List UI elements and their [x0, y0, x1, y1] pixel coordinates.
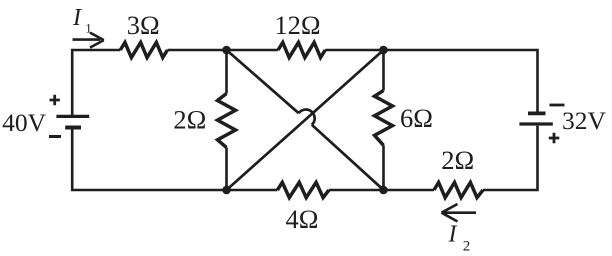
wire: top middle (3-ohm to 12-ohm)	[167, 49, 278, 52]
node junction top-left	[222, 46, 231, 55]
svg-text:I: I	[72, 5, 82, 31]
node junction bottom-left	[222, 186, 231, 195]
wire: right branch bottom (battery to 2-ohm)	[483, 126, 538, 190]
svg-text:2Ω: 2Ω	[173, 104, 206, 134]
wire: 6-ohm branch bottom stub	[382, 145, 385, 190]
svg-text:4Ω: 4Ω	[286, 204, 319, 234]
node junction bottom-right	[379, 186, 388, 195]
svg-text:1: 1	[85, 21, 92, 36]
battery V1 40V long plate	[56, 115, 89, 118]
battery V1 40V short plate	[65, 126, 81, 130]
wire: diagonal from top-left node with crossover hop to bottom-right node	[227, 50, 384, 190]
svg-text:3Ω: 3Ω	[127, 10, 160, 40]
svg-text:I: I	[448, 222, 458, 248]
wire: 6-ohm branch top stub	[382, 50, 385, 91]
wire: top right (12-ohm to right battery)	[325, 50, 537, 112]
svg-text:40V: 40V	[2, 108, 47, 137]
svg-text:32V: 32V	[562, 106, 607, 135]
wire: bottom left (4-ohm to left battery)	[72, 129, 277, 190]
wire: bottom middle (2-ohm to 4-ohm)	[329, 189, 434, 192]
resistor R3 2-ohm vertical	[218, 94, 236, 148]
battery V1 plus sign	[50, 95, 60, 105]
wire: diagonal from bottom-left node to top-right node	[227, 50, 384, 190]
resistor R6 2-ohm bottom right	[434, 182, 483, 197]
battery V2 32V short plate	[528, 112, 546, 116]
svg-text:6Ω: 6Ω	[400, 103, 433, 133]
resistor R1 3-ohm	[120, 42, 167, 57]
wire: left branch top (battery + to 3-ohm)	[72, 50, 120, 115]
battery V2 plus sign	[549, 133, 560, 144]
battery V2 minus sign	[550, 104, 565, 107]
wire: crossover hop arc	[299, 109, 315, 124]
battery V1 minus sign	[49, 135, 61, 138]
node junction top-right	[379, 46, 388, 55]
svg-text:12Ω: 12Ω	[274, 10, 320, 40]
battery V2 32V long plate	[519, 122, 552, 125]
resistor R2 12-ohm	[278, 42, 325, 57]
current arrow I1	[73, 33, 104, 48]
svg-text:2Ω: 2Ω	[441, 145, 474, 175]
svg-text:2: 2	[463, 239, 471, 255]
resistor R4 6-ohm vertical	[375, 91, 393, 146]
current arrow I2	[442, 204, 477, 222]
wire: 2-ohm branch bottom stub	[225, 148, 228, 191]
resistor R5 4-ohm	[277, 182, 329, 197]
wire: 2-ohm branch top stub	[225, 50, 228, 94]
